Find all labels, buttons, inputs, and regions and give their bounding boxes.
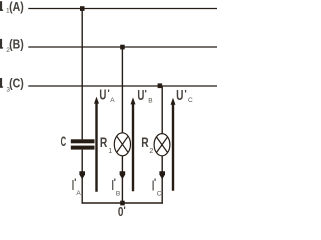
svg-text:B: B <box>148 98 152 105</box>
svg-text:U: U <box>99 87 106 103</box>
svg-text:': ' <box>145 89 147 100</box>
wire: branch C drop from L3 to lamp R2 <box>161 86 163 134</box>
svg-text:R: R <box>100 134 107 150</box>
svg-text:(C): (C) <box>9 76 24 91</box>
label U'C <box>176 88 193 104</box>
label U'B <box>137 88 152 105</box>
node L2(B) label <box>0 37 24 55</box>
capacitor C <box>71 139 95 149</box>
svg-text:': ' <box>74 178 76 189</box>
svg-text:2: 2 <box>149 148 153 155</box>
junction on L1 at branch A <box>80 6 85 11</box>
voltage arrow U'B <box>131 97 136 191</box>
lamp R1 <box>114 133 130 156</box>
node L1(A) label <box>0 0 24 14</box>
wire: phase line L2 <box>28 46 217 48</box>
svg-text:': ' <box>123 205 125 216</box>
svg-text:R: R <box>141 134 148 150</box>
node L3(C) label <box>0 76 24 94</box>
label I'B <box>112 178 121 198</box>
current arrowhead I'B <box>120 171 126 179</box>
lamp R2 <box>154 134 170 156</box>
node 0' label <box>118 204 126 219</box>
wire: phase line L3 <box>28 85 217 87</box>
svg-text:(B): (B) <box>9 37 24 52</box>
wire: branch B drop from L2 to lamp R1 <box>121 47 123 133</box>
svg-text:U: U <box>176 88 183 104</box>
svg-text:': ' <box>154 178 156 189</box>
svg-text:': ' <box>184 89 186 100</box>
svg-text:C: C <box>157 191 162 198</box>
junction on L2 at branch B <box>120 45 125 50</box>
svg-text:1: 1 <box>108 148 112 155</box>
label I'A <box>72 178 82 197</box>
wire: bottom rail to node 0' <box>82 202 163 204</box>
current arrowhead I'C <box>159 171 165 179</box>
wire: branch A below capacitor to bottom rail <box>81 150 83 204</box>
wire: branch B below lamp R1 to bottom rail <box>121 156 123 204</box>
label R1 <box>100 134 112 155</box>
wire: branch C below lamp R2 to bottom rail <box>161 156 163 204</box>
svg-text:A: A <box>76 190 81 197</box>
svg-text:C: C <box>61 134 67 149</box>
svg-text:(A): (A) <box>9 0 24 14</box>
label U'A <box>99 87 115 103</box>
label I'C <box>152 178 162 198</box>
voltage arrow U'A <box>94 97 99 192</box>
svg-text:C: C <box>188 97 193 104</box>
label R2 <box>141 134 153 155</box>
svg-text:U: U <box>137 88 144 104</box>
svg-text:': ' <box>114 178 116 189</box>
wire: phase line L1 <box>28 8 217 10</box>
voltage arrow U'C <box>171 98 176 191</box>
wire: branch A drop from L1 to capacitor <box>81 9 83 140</box>
svg-text:B: B <box>116 191 120 198</box>
junction at node 0' <box>120 201 125 206</box>
svg-text:A: A <box>110 97 115 104</box>
junction on L3 at branch C <box>158 83 163 88</box>
current arrowhead I'A <box>79 171 85 179</box>
